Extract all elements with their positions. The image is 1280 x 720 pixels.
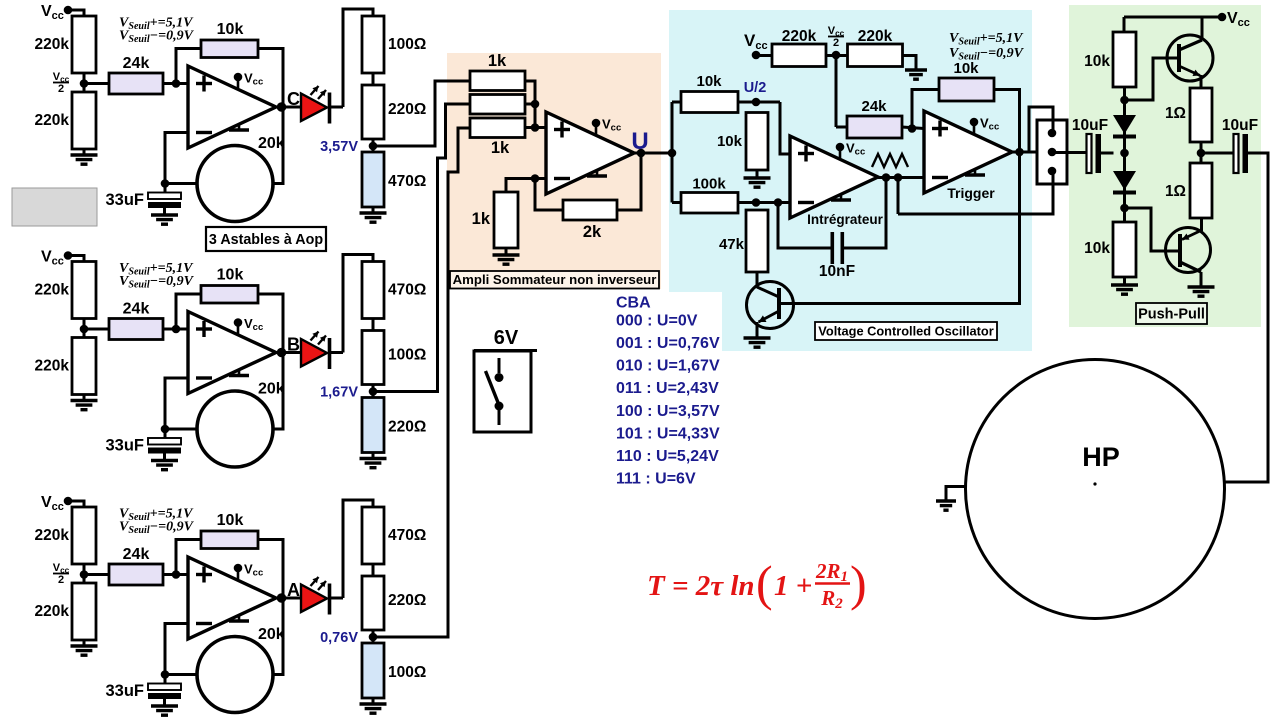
- svg-text:HP: HP: [1082, 442, 1120, 472]
- wire pot left (astable A): [165, 673, 197, 676]
- Vcc supply label (push-pull): [1218, 10, 1250, 29]
- Vcc supply label (astable C): [41, 3, 72, 22]
- ground of 33uF (astable C): [151, 208, 178, 225]
- svg-text:1 +: 1 +: [774, 570, 812, 602]
- op-amp trigger Vcc pin: [970, 116, 1000, 134]
- ground of ladder (astable B): [360, 453, 387, 468]
- svg-text:2k: 2k: [583, 223, 602, 241]
- wire Vcc/2 to 24k (astable C): [84, 82, 109, 85]
- wire Q1 base to trigger output: [779, 152, 1020, 304]
- wire trigger output to connector top pin: [1029, 107, 1053, 152]
- wire pot left (astable C): [165, 182, 197, 185]
- wire - input to RC node (astable A): [165, 624, 188, 675]
- transistor Q3 (PNP bottom): [1166, 228, 1211, 273]
- op-amp astable A + input: [196, 567, 212, 583]
- svg-text:CBA: CBA: [616, 295, 651, 312]
- svg-text:Vcc: Vcc: [244, 71, 263, 88]
- label box Push-Pull: [1136, 303, 1207, 324]
- wire U vertical to 10k: [672, 101, 681, 104]
- label box Voltage Controlled Oscillator: [815, 322, 997, 340]
- resistor 10k trigger feedback: [939, 60, 994, 101]
- wire divider middle (astable B): [83, 319, 86, 338]
- svg-text:1k: 1k: [472, 210, 491, 228]
- svg-text:10k: 10k: [1084, 240, 1110, 257]
- switch symbol: [486, 358, 504, 425]
- ground of ladder (astable C): [360, 207, 387, 222]
- op-amp astable C V- ground pin: [229, 124, 249, 130]
- trigger label: [947, 185, 995, 201]
- ground of divider (astable B): [71, 395, 98, 410]
- wire 10k feedback to output (astable B): [258, 294, 283, 353]
- Vseuil thresholds note (VCO): [949, 31, 1025, 63]
- wire LED to ladder top (astable A): [331, 500, 374, 598]
- table CBA output levels: [616, 295, 720, 488]
- svg-text:Vcc: Vcc: [244, 316, 263, 333]
- svg-text:2R1: 2R1: [815, 559, 848, 585]
- wire 24k to op-amp + (astable C): [163, 79, 188, 88]
- resistor 220&#937; ladder middle (astable C): [362, 85, 426, 139]
- svg-text:1Ω: 1Ω: [1165, 183, 1186, 200]
- resistor 220k lower divider (astable C): [35, 92, 96, 149]
- wire pot right to output (astable B): [273, 353, 283, 430]
- resistor 100k VCO input lower: [681, 176, 738, 214]
- resistor 10k positive feedback (astable A): [201, 512, 258, 549]
- resistor 10k positive feedback (astable B): [201, 267, 258, 304]
- svg-text:1k: 1k: [488, 52, 507, 70]
- svg-text:Vcc: Vcc: [41, 249, 64, 268]
- node Vcc/2 (VCO): [828, 25, 845, 59]
- wire pot right to output (astable C): [273, 107, 283, 184]
- svg-text:220Ω: 220Ω: [388, 592, 426, 609]
- svg-text:33uF: 33uF: [105, 682, 144, 700]
- resistor 1k to ground: [472, 192, 518, 248]
- svg-text:220Ω: 220Ω: [388, 101, 426, 118]
- svg-text:10k: 10k: [1084, 53, 1110, 70]
- resistor 220k upper divider (astable B): [35, 262, 96, 319]
- svg-text:3 Astables à Aop: 3 Astables à Aop: [209, 232, 323, 248]
- wire tap B to summing input 2: [373, 104, 470, 392]
- wire divider middle (astable A): [83, 564, 86, 583]
- svg-text:470Ω: 470Ω: [388, 527, 426, 544]
- svg-text:101 : U=4,33V: 101 : U=4,33V: [616, 425, 720, 442]
- wire 100k to integrator -: [737, 198, 790, 207]
- push-pull background region: [1069, 5, 1261, 327]
- resistor 10k VCO input upper: [681, 73, 738, 113]
- ground of summing 1k: [493, 248, 520, 264]
- svg-text:220k: 220k: [35, 603, 70, 620]
- Vseuil thresholds note (astable A): [119, 507, 195, 537]
- svg-text:(: (: [756, 555, 773, 611]
- svg-text:2: 2: [833, 37, 839, 49]
- svg-text:20k: 20k: [258, 381, 285, 398]
- svg-text:220k: 220k: [35, 527, 70, 544]
- svg-text:000 : U=0V: 000 : U=0V: [616, 313, 698, 330]
- op-amp astable B V- ground pin: [229, 370, 249, 376]
- node lower bias junction: [1120, 204, 1129, 213]
- node U output: [631, 128, 676, 157]
- node upper bias junction: [1120, 87, 1129, 104]
- resistor 24k trigger input: [836, 55, 902, 138]
- wire Vcc to 220k (VCO): [756, 54, 772, 57]
- resistor 220k left (VCO divider): [772, 28, 826, 67]
- resistor 10k upper bias: [1084, 32, 1136, 87]
- output node B: [276, 335, 301, 358]
- integrator label: [807, 212, 884, 227]
- ground of ladder (astable A): [360, 698, 387, 713]
- op-amp summing body: [546, 112, 634, 194]
- LED B (output indicator): [301, 332, 330, 370]
- wire trigger feedback left: [912, 90, 939, 129]
- resistor 2k feedback: [563, 200, 617, 241]
- svg-text:2: 2: [58, 83, 64, 95]
- op-amp astable C Vcc pin: [234, 71, 264, 89]
- Vcc/2 node label (astable A): [53, 562, 70, 586]
- svg-text:47k: 47k: [719, 236, 745, 253]
- wire upper junction to Q2 base: [1125, 58, 1178, 100]
- wire U/2 to integrator +: [780, 102, 790, 154]
- resistor 470&#937; ladder bottom (astable C): [362, 152, 426, 207]
- wire summing feedback: [617, 153, 641, 210]
- diode D2: [1113, 171, 1136, 193]
- svg-text:470Ω: 470Ω: [388, 282, 426, 299]
- output node A: [276, 580, 301, 603]
- wire divider middle (VCO): [826, 54, 848, 57]
- svg-text:Trigger: Trigger: [947, 185, 995, 201]
- resistor 47k: [719, 210, 768, 272]
- ground of divider (astable C): [71, 149, 98, 164]
- op-amp trigger - input: [932, 176, 948, 179]
- wire Vcc/2 to 24k (astable B): [84, 328, 109, 331]
- wire pot left (astable B): [165, 428, 197, 431]
- wire Q3 collector to ground: [1188, 272, 1215, 296]
- wire U to VCO inputs: [671, 102, 674, 203]
- svg-text:33uF: 33uF: [105, 191, 144, 209]
- svg-text:100Ω: 100Ω: [388, 347, 426, 364]
- node push-pull output junction: [1197, 142, 1206, 163]
- resistor 220k right (VCO divider): [848, 28, 903, 67]
- svg-text:100k: 100k: [692, 176, 726, 193]
- capacitor 10uF input coupling: [1072, 117, 1114, 173]
- battery 6V switch box: [474, 327, 537, 432]
- svg-text:U/2: U/2: [744, 80, 767, 96]
- svg-text:20k: 20k: [258, 135, 285, 152]
- diode D1: [1113, 115, 1136, 137]
- svg-text:220k: 220k: [35, 358, 70, 375]
- node summing input junctions: [531, 100, 540, 132]
- svg-text:100 : U=3,57V: 100 : U=3,57V: [616, 403, 720, 420]
- capacitor 33uF (astable A): [105, 675, 181, 701]
- potentiometer 20k (astable B): [197, 381, 285, 468]
- resistor 220k lower divider (astable B): [35, 338, 96, 395]
- summing amplifier background region: [447, 53, 661, 289]
- ground of 33uF (astable A): [151, 699, 178, 716]
- op-amp integrator V- ground pin: [831, 194, 851, 200]
- capacitor 33uF (astable C): [105, 184, 181, 210]
- node U/2: [738, 80, 780, 106]
- svg-text:111 : U=6V: 111 : U=6V: [616, 470, 696, 487]
- wire ladder to tap (astable B): [372, 385, 375, 398]
- wire + input up to 10k feedback (astable A): [176, 540, 201, 575]
- wire 2k to - input: [531, 174, 563, 210]
- resistor 10k U/2 to ground: [717, 113, 768, 171]
- label box Ampli Sommateur non inverseur: [450, 271, 659, 289]
- op-amp integrator body: [790, 136, 878, 218]
- op-amp summing Vcc pin: [592, 117, 622, 135]
- svg-text:100Ω: 100Ω: [388, 36, 426, 53]
- resistor 1 ohm lower: [1165, 163, 1212, 218]
- Vcc supply label (VCO divider): [744, 31, 768, 59]
- resistor 1k summing input 2: [470, 95, 525, 115]
- wire output cap to speaker: [1225, 153, 1269, 482]
- wire 10k feedback to output (astable A): [258, 540, 283, 599]
- speaker HP: [966, 360, 1225, 619]
- op-amp astable B body: [188, 312, 276, 394]
- op-amp astable A body: [188, 557, 276, 639]
- label box 3 Astables a Aop: [206, 227, 326, 251]
- op-amp trigger + input: [932, 121, 948, 137]
- Vcc supply label (astable A): [41, 494, 72, 513]
- wire 24k to op-amp + (astable B): [163, 325, 188, 334]
- svg-text:Vcc: Vcc: [41, 3, 64, 22]
- svg-text:10nF: 10nF: [819, 263, 855, 280]
- node integrator output: [878, 173, 924, 182]
- transistor Q2 (NPN top): [1167, 35, 1213, 81]
- svg-text:): ): [850, 555, 867, 611]
- gray legend box: [12, 188, 97, 226]
- wire lower junction to Q3 base: [1125, 208, 1179, 251]
- potentiometer 20k (astable C): [197, 135, 285, 222]
- wire speaker to ground: [946, 487, 966, 502]
- svg-text:33uF: 33uF: [105, 437, 144, 455]
- resistor 100&#937; ladder top (astable C): [362, 16, 426, 73]
- capacitor 10uF output coupling: [1201, 117, 1258, 173]
- Vseuil thresholds note (astable C): [119, 16, 195, 46]
- svg-text:1Ω: 1Ω: [1165, 105, 1186, 122]
- resistor 1k summing input 1: [470, 52, 525, 91]
- svg-text:T = 2τ ln: T = 2τ ln: [647, 570, 755, 602]
- wire trigger feedback right: [994, 90, 1020, 153]
- op-amp astable C - input: [196, 131, 212, 134]
- svg-text:U: U: [631, 128, 648, 155]
- node RC feedback junction (astable C): [161, 179, 170, 188]
- svg-text:24k: 24k: [123, 301, 150, 318]
- diode chain wire: [1123, 100, 1126, 222]
- wire ladder (astable A): [372, 564, 375, 576]
- svg-text:Vcc: Vcc: [41, 494, 64, 513]
- wire - input to 1k ground leg: [506, 179, 535, 193]
- svg-text:20k: 20k: [258, 626, 285, 643]
- wire 10k feedback to output (astable C): [258, 49, 283, 108]
- wire ladder (astable C): [372, 73, 375, 85]
- LED A (output indicator): [301, 577, 330, 615]
- svg-text:10k: 10k: [953, 60, 979, 77]
- op-amp astable A V- ground pin: [229, 615, 249, 621]
- svg-text:24k: 24k: [123, 546, 150, 563]
- resistor 1 ohm upper: [1165, 88, 1212, 142]
- svg-text:10k: 10k: [696, 73, 722, 90]
- op-amp integrator + input: [798, 146, 814, 162]
- svg-text:1k: 1k: [491, 139, 510, 157]
- svg-text:220Ω: 220Ω: [388, 419, 426, 436]
- svg-text:3,57V: 3,57V: [320, 139, 358, 155]
- wire ladder (astable B): [372, 319, 375, 331]
- svg-text:B: B: [287, 335, 300, 355]
- svg-text:6V: 6V: [494, 327, 519, 349]
- wire + input up to 10k feedback (astable B): [176, 294, 201, 329]
- op-amp summing - input: [554, 177, 570, 180]
- ground of lower 10k: [1111, 277, 1138, 294]
- ground of divider (astable A): [71, 640, 98, 655]
- wire Vcc to divider (astable A): [68, 501, 84, 507]
- Vseuil thresholds note (astable B): [119, 261, 195, 291]
- svg-text:10k: 10k: [717, 133, 743, 150]
- svg-text:110 : U=5,24V: 110 : U=5,24V: [616, 448, 719, 465]
- svg-text:10uF: 10uF: [1222, 117, 1258, 134]
- wire Vcc to divider (astable C): [68, 10, 84, 16]
- LED C (output indicator): [301, 86, 330, 124]
- svg-text:220k: 220k: [35, 282, 70, 299]
- VCO background region: [669, 10, 1032, 351]
- op-amp integrator Vcc pin: [836, 141, 866, 159]
- resistor 24k input (astable C): [109, 55, 163, 94]
- wire LED to ladder top (astable C): [331, 9, 374, 107]
- svg-text:10k: 10k: [217, 21, 244, 38]
- node Vcc/2 junction (astable C): [80, 79, 89, 88]
- wire integrator output to connector bottom pin: [898, 171, 1053, 214]
- node RC feedback junction (astable B): [161, 425, 170, 434]
- wire ladder to tap (astable A): [372, 630, 375, 643]
- resistor 100&#937; ladder bottom (astable A): [362, 643, 426, 698]
- connector pins: [1048, 129, 1057, 176]
- svg-text:470Ω: 470Ω: [388, 173, 426, 190]
- op-amp integrator - input: [798, 201, 814, 204]
- wire and ground of VCO divider: [903, 56, 928, 80]
- Vcc/2 node label (astable C): [53, 71, 70, 95]
- svg-text:10uF: 10uF: [1072, 117, 1108, 134]
- wire connector middle pin to coupling cap: [1052, 151, 1087, 154]
- resistor 24k input (astable A): [109, 546, 163, 585]
- resistor 220k upper divider (astable A): [35, 507, 96, 564]
- svg-text:10k: 10k: [217, 512, 244, 529]
- node tap 3,57V (astable C): [320, 139, 377, 155]
- ground of Q1: [744, 338, 771, 347]
- wire - input to RC node (astable B): [165, 378, 188, 429]
- svg-text:100Ω: 100Ω: [388, 664, 426, 681]
- svg-text:1,67V: 1,67V: [320, 385, 358, 401]
- op-amp astable C + input: [196, 76, 212, 92]
- resistor 470&#937; ladder top (astable A): [362, 507, 426, 564]
- svg-text:0,76V: 0,76V: [320, 630, 358, 646]
- resistor 100&#937; ladder middle (astable B): [362, 331, 426, 385]
- wire ladder to tap (astable C): [372, 139, 375, 152]
- op-amp trigger V- ground pin: [965, 169, 985, 175]
- wire U vertical to 100k: [672, 201, 681, 204]
- output node C: [276, 89, 301, 112]
- wire summing inputs join: [525, 81, 546, 128]
- wire Vcc/2 to 24k (astable A): [84, 573, 109, 576]
- node diode midpoint: [1120, 149, 1129, 158]
- wire Vcc rail (push-pull): [1124, 17, 1222, 32]
- svg-text:2: 2: [58, 574, 64, 586]
- resistor 220&#937; ladder middle (astable A): [362, 576, 426, 630]
- wire tap C to summing input 1: [373, 81, 470, 146]
- capacitor 10nF (integrator feedback): [778, 178, 886, 281]
- svg-text:Push-Pull: Push-Pull: [1138, 307, 1205, 323]
- node tap 0,76V (astable A): [320, 630, 377, 646]
- node Vcc/2 junction (astable B): [80, 325, 89, 334]
- ground of U/2 10k: [744, 170, 771, 187]
- node trigger output: [1012, 148, 1037, 157]
- op-amp astable C body: [188, 66, 276, 148]
- connector block: [1037, 120, 1067, 184]
- svg-text:220k: 220k: [858, 28, 893, 45]
- svg-text:Intrégrateur: Intrégrateur: [807, 212, 884, 227]
- op-amp trigger body: [924, 111, 1012, 193]
- wire LED to ladder top (astable B): [331, 255, 374, 353]
- wire divider middle (astable C): [83, 73, 86, 92]
- svg-text:R2: R2: [820, 586, 843, 612]
- white block behind CBA table: [606, 292, 722, 492]
- svg-text:24k: 24k: [123, 55, 150, 72]
- svg-text:220k: 220k: [35, 36, 70, 53]
- resistor 220k lower divider (astable A): [35, 583, 96, 640]
- wire - input to RC node (astable C): [165, 133, 188, 184]
- node Vcc/2 junction (astable A): [80, 570, 89, 579]
- wire Q2 collector to Vcc: [1201, 17, 1204, 40]
- capacitor 33uF (astable B): [105, 429, 181, 455]
- op-amp astable B - input: [196, 376, 212, 379]
- node tap 1,67V (astable B): [320, 385, 377, 401]
- Vcc supply label (astable B): [41, 249, 72, 268]
- op-amp summing V- ground pin: [587, 170, 607, 176]
- wire tap A to summing input 3: [373, 128, 470, 637]
- resistor 1k summing input 3: [470, 118, 525, 157]
- op-amp astable A - input: [196, 622, 212, 625]
- op-amp astable A Vcc pin: [234, 562, 264, 580]
- svg-text:220k: 220k: [782, 28, 817, 45]
- ground of 33uF (astable B): [151, 453, 178, 470]
- wire Q3 emitter to 1 ohm: [1200, 218, 1203, 231]
- svg-text:24k: 24k: [861, 98, 887, 115]
- wire 24k to op-amp + (astable A): [163, 570, 188, 579]
- wire pot right to output (astable A): [273, 598, 283, 675]
- svg-text:10k: 10k: [217, 267, 244, 284]
- ground of speaker: [936, 501, 956, 510]
- svg-text:A: A: [287, 580, 300, 600]
- op-amp summing + input: [554, 122, 570, 138]
- op-amp astable B + input: [196, 321, 212, 337]
- resistor 24k input (astable B): [109, 301, 163, 340]
- wire Vcc to divider (astable B): [68, 256, 84, 262]
- resistor 220&#937; ladder bottom (astable B): [362, 398, 426, 453]
- svg-text:220k: 220k: [35, 112, 70, 129]
- svg-text:C: C: [287, 89, 300, 109]
- svg-text:001 : U=0,76V: 001 : U=0,76V: [616, 335, 720, 352]
- svg-text:Vcc: Vcc: [244, 562, 263, 579]
- formula T = 2 tau ln(1 + 2R1/R2): [647, 555, 867, 612]
- node RC feedback junction (astable A): [161, 670, 170, 679]
- resistor 10k lower bias: [1084, 222, 1136, 277]
- resistor 220k upper divider (astable C): [35, 16, 96, 73]
- svg-text:010 : U=1,67V: 010 : U=1,67V: [616, 358, 720, 375]
- resistor 10k positive feedback (astable C): [201, 21, 258, 58]
- resistor 470&#937; ladder top (astable B): [362, 262, 426, 319]
- potentiometer 20k (astable A): [197, 626, 285, 713]
- svg-text:Ampli Sommateur non inverseur: Ampli Sommateur non inverseur: [453, 272, 657, 287]
- wire 47k to transistor collector: [756, 272, 759, 288]
- wire 24k to trigger +: [902, 124, 924, 133]
- op-amp astable B Vcc pin: [234, 316, 264, 334]
